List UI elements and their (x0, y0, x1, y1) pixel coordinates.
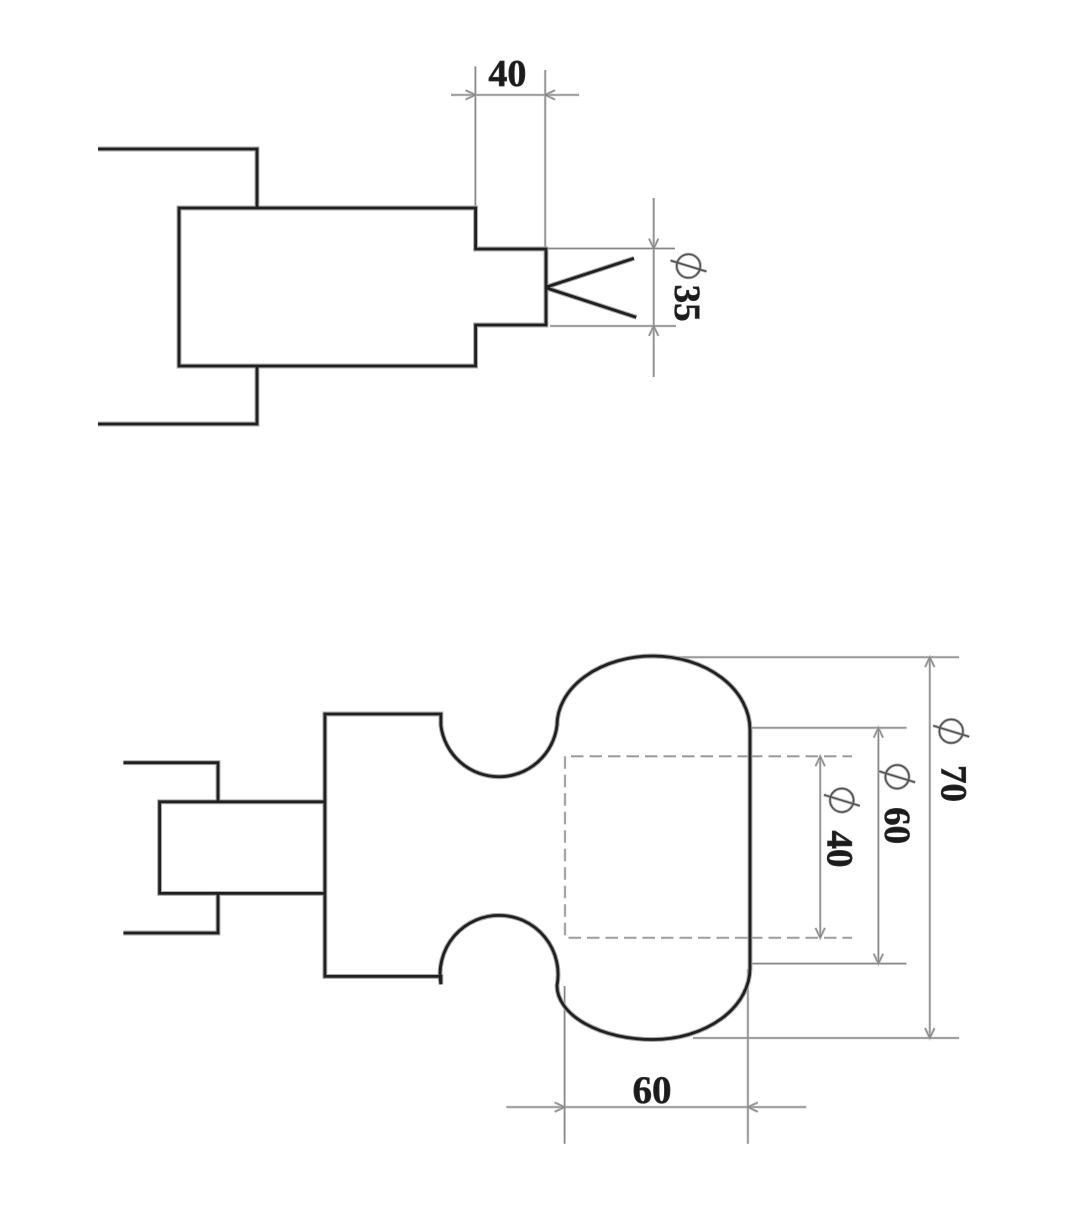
svg-text:40: 40 (819, 831, 860, 868)
svg-text:70: 70 (933, 765, 974, 802)
dashed lines core pass (565, 756, 852, 938)
phi symbols halo pass (671, 254, 970, 812)
thin lines core pass (451, 66, 959, 1143)
svg-text:60: 60 (633, 1069, 672, 1112)
svg-text:40: 40 (488, 53, 526, 95)
dashed lines halo pass (565, 756, 852, 938)
svg-text:35: 35 (666, 285, 707, 322)
thick outline halo pass (98, 149, 750, 1040)
thin lines halo pass (451, 66, 959, 1143)
phi symbols core pass (671, 254, 970, 812)
thick outline core pass (98, 149, 750, 1040)
svg-text:60: 60 (876, 807, 917, 844)
